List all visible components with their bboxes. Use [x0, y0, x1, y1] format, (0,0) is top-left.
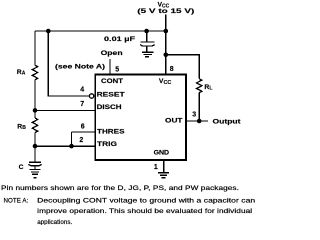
svg-text:DISCH: DISCH — [97, 104, 122, 111]
wire left rail upper — [34, 31, 36, 65]
resistor RB — [32, 118, 37, 133]
node reset-rail — [46, 29, 51, 34]
capacitor C2 0.01uF — [140, 31, 155, 52]
svg-text:1: 1 — [154, 164, 158, 171]
wire top VCC rail — [35, 30, 166, 32]
wire OUT — [186, 120, 208, 122]
wire left rail lower — [34, 133, 36, 162]
wire TRIG — [35, 145, 95, 147]
ground C2 — [142, 52, 154, 56]
wire RL to OUT — [198, 93, 200, 121]
svg-text:applications.: applications. — [37, 219, 72, 225]
wire RL branch — [166, 55, 199, 79]
svg-text:VCC: VCC — [159, 78, 172, 86]
svg-text:RA: RA — [17, 69, 26, 76]
IC U1 555 box — [95, 75, 186, 161]
svg-text:CONT: CONT — [101, 78, 124, 85]
node vcc-rail — [164, 29, 169, 34]
svg-text:improve operation. This should: improve operation. This should be evalua… — [37, 208, 252, 215]
node thres-trig — [69, 144, 74, 149]
svg-text:RB: RB — [17, 124, 26, 131]
node RL-branch — [164, 53, 169, 58]
reset bubble pin4 — [89, 94, 93, 98]
wire pin5 stub — [109, 59, 111, 75]
svg-text:3: 3 — [192, 112, 196, 119]
svg-text:RL: RL — [204, 84, 212, 91]
svg-text:TRIG: TRIG — [97, 141, 117, 148]
resistor RL — [197, 79, 202, 93]
svg-text:Open: Open — [101, 50, 123, 57]
wire pin1 GND — [163, 160, 165, 172]
node disch — [33, 108, 38, 113]
wire left rail mid — [34, 80, 36, 118]
wire DISCH — [35, 109, 95, 111]
svg-text:4: 4 — [80, 87, 84, 94]
svg-text:5: 5 — [115, 66, 119, 73]
node out — [197, 119, 202, 124]
svg-text:C: C — [19, 164, 24, 171]
svg-text:OUT: OUT — [165, 117, 184, 124]
svg-text:7: 7 — [80, 101, 84, 108]
svg-text:0.01 µF: 0.01 µF — [104, 36, 135, 43]
ground GND — [158, 173, 169, 178]
svg-text:NOTE A:: NOTE A: — [4, 197, 29, 204]
svg-text:Output: Output — [213, 118, 242, 125]
svg-text:8: 8 — [170, 66, 174, 73]
svg-text:(see Note A): (see Note A) — [55, 63, 105, 70]
svg-text:6: 6 — [81, 123, 85, 130]
svg-text:RESET: RESET — [97, 92, 126, 99]
resistor RA — [32, 65, 37, 80]
capacitor C — [28, 162, 41, 169]
wire RESET riser — [48, 31, 89, 96]
svg-text:Decoupling CONT voltage to gro: Decoupling CONT voltage to ground with a… — [37, 197, 256, 204]
svg-text:Pin numbers shown are for the: Pin numbers shown are for the D, JG, P, … — [1, 185, 239, 192]
wire VCC stem — [165, 15, 167, 76]
wire THRES — [72, 132, 96, 146]
svg-text:(5 V to 15 V): (5 V to 15 V) — [137, 8, 194, 15]
svg-text:THRES: THRES — [97, 128, 125, 135]
svg-text:2: 2 — [79, 137, 83, 144]
ground C — [30, 170, 41, 178]
svg-text:GND: GND — [154, 150, 170, 157]
node cap2-rail — [144, 29, 149, 34]
node trig-rail — [33, 144, 38, 149]
